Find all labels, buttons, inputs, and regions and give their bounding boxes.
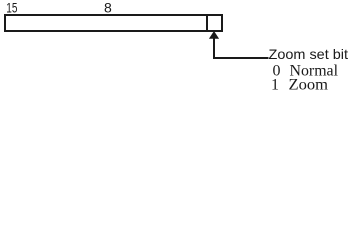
arrow shaft and elbow to label xyxy=(214,38,269,58)
arrowhead pointing at bit 0 xyxy=(209,31,219,39)
svg-text:15: 15 xyxy=(6,0,17,16)
bit 0 cell divider xyxy=(206,15,208,31)
svg-text:Zoom: Zoom xyxy=(289,77,329,94)
svg-text:8: 8 xyxy=(104,0,112,16)
register box bits 15..0 xyxy=(5,15,222,31)
svg-text:1: 1 xyxy=(271,77,279,94)
svg-text:Zoom set bit: Zoom set bit xyxy=(269,46,349,62)
